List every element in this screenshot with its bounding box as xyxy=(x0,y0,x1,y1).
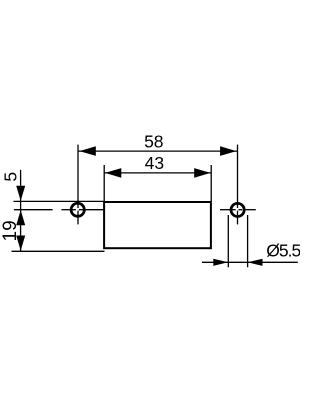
svg-text:58: 58 xyxy=(144,132,163,152)
svg-text:19: 19 xyxy=(0,220,21,241)
svg-text:Ø5.5: Ø5.5 xyxy=(266,241,300,261)
svg-text:43: 43 xyxy=(145,153,164,173)
svg-text:5: 5 xyxy=(0,172,20,182)
